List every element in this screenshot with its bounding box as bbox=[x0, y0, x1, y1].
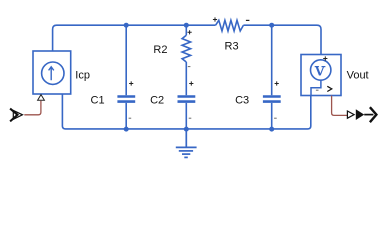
junction node bottom C3 bbox=[269, 127, 274, 132]
svg-text:C1: C1 bbox=[91, 95, 105, 107]
output port chevron bbox=[370, 107, 377, 122]
wire top rail from Icp to voltmeter bbox=[53, 25, 216, 51]
wire R2 to C2 bbox=[185, 62, 187, 129]
C2 minus sign bbox=[189, 117, 192, 119]
capacitor C3 bbox=[263, 97, 281, 102]
R3 plus sign bbox=[213, 17, 217, 21]
current source circle with up arrow bbox=[42, 62, 64, 84]
C2 plus sign bbox=[189, 81, 193, 85]
C3 minus sign bbox=[274, 117, 277, 119]
ground bbox=[176, 129, 197, 157]
current source U1 Icp block box bbox=[33, 51, 71, 94]
voltmeter minus sign bbox=[316, 89, 319, 91]
output port line bbox=[364, 114, 373, 116]
resistor R2 bbox=[182, 35, 191, 62]
wire top rail right of R3 bbox=[243, 25, 321, 54]
voltmeter internal lead bbox=[311, 80, 321, 95]
output port filled arrow bbox=[356, 109, 364, 120]
capacitor C1 bbox=[117, 97, 135, 102]
junction node top C1 bbox=[124, 23, 129, 28]
R2 minus sign bbox=[188, 66, 191, 68]
svg-text:R2: R2 bbox=[153, 44, 167, 56]
wire C3 branch vertical bbox=[271, 25, 273, 129]
voltmeter plus sign bbox=[323, 56, 327, 60]
output port open triangle bbox=[347, 111, 354, 118]
svg-text:Icp: Icp bbox=[75, 69, 90, 81]
Icp bottom port triangle bbox=[38, 95, 45, 101]
input port chevron bbox=[10, 109, 17, 122]
svg-text:C3: C3 bbox=[235, 94, 249, 106]
R2 plus sign bbox=[188, 30, 192, 34]
junction node top C3 bbox=[269, 23, 274, 28]
physical signal wire (red) from voltmeter to output bbox=[332, 96, 347, 116]
R3 minus sign bbox=[246, 19, 250, 21]
C1 minus sign bbox=[129, 117, 132, 119]
capacitor C2 bbox=[178, 97, 196, 102]
wire C1 branch vertical bbox=[125, 25, 127, 129]
C3 plus sign bbox=[275, 81, 279, 85]
resistor R3 bbox=[216, 20, 244, 31]
voltmeter PS out marker > bbox=[327, 86, 332, 91]
wire bottom rail bbox=[62, 94, 310, 129]
wire R2/C2 branch top bbox=[185, 25, 187, 35]
physical signal wire (red) from input to Icp bbox=[24, 101, 41, 115]
svg-text:Vout: Vout bbox=[347, 70, 369, 82]
junction node bottom C2/ground bbox=[184, 127, 189, 132]
junction node bottom C1 bbox=[124, 127, 129, 132]
svg-text:C2: C2 bbox=[150, 95, 164, 107]
voltmeter U2 Vout block box bbox=[301, 55, 341, 96]
input port open triangle bbox=[13, 110, 22, 119]
voltmeter V letter bbox=[315, 67, 326, 76]
C1 plus sign bbox=[129, 81, 133, 85]
junction node top R2 bbox=[184, 23, 189, 28]
svg-text:R3: R3 bbox=[225, 41, 239, 53]
voltmeter circle bbox=[311, 60, 331, 80]
